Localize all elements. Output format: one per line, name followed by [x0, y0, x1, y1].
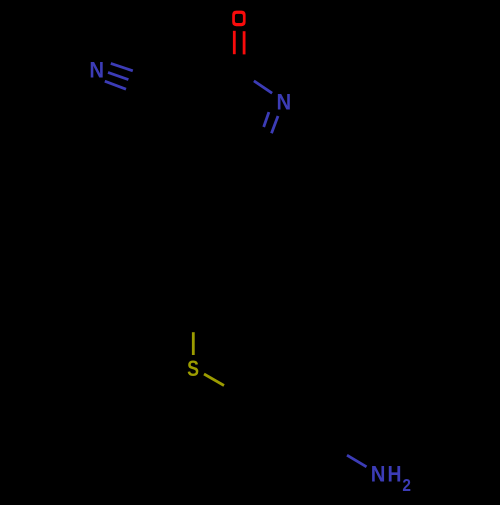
- bond C#N line middle: [108, 72, 128, 79]
- bond N1=C5 inner line (N half): [264, 112, 269, 127]
- bond C2=O line 1: [233, 31, 236, 54]
- svg-text:N: N: [89, 58, 104, 83]
- svg-text:2: 2: [402, 476, 411, 495]
- wire: ring bond C4-C5: [205, 152, 263, 156]
- svg-text:S: S: [187, 357, 199, 381]
- wire: ring bond C2-C3: [184, 72, 235, 99]
- wire: ring bond C3-C4: [184, 99, 205, 156]
- carbonyl O: [232, 11, 245, 27]
- bond CH2-S (S half): [192, 332, 195, 355]
- bond C#N line top: [111, 63, 133, 70]
- svg-text:N: N: [276, 90, 291, 115]
- svg-text:N: N: [371, 462, 386, 487]
- bond C4'-NH2 (N half): [347, 455, 367, 467]
- invisible carbon skeleton (black on black): [184, 72, 345, 486]
- wire: chain CH2-CH2b: [193, 255, 205, 308]
- bond S-C1' (S half): [204, 374, 224, 386]
- wire: chain C4-CH2: [205, 156, 233, 203]
- bond C2=O line 2: [243, 31, 246, 54]
- bond C2-N1 (N half): [254, 81, 272, 93]
- svg-text:H: H: [388, 462, 402, 486]
- bond N1=C5 main line (N half): [272, 116, 279, 133]
- bond C#N line bottom: [105, 81, 126, 89]
- wire: phenyl ring: [235, 384, 345, 486]
- wire: chain CH2-CH2: [205, 203, 233, 255]
